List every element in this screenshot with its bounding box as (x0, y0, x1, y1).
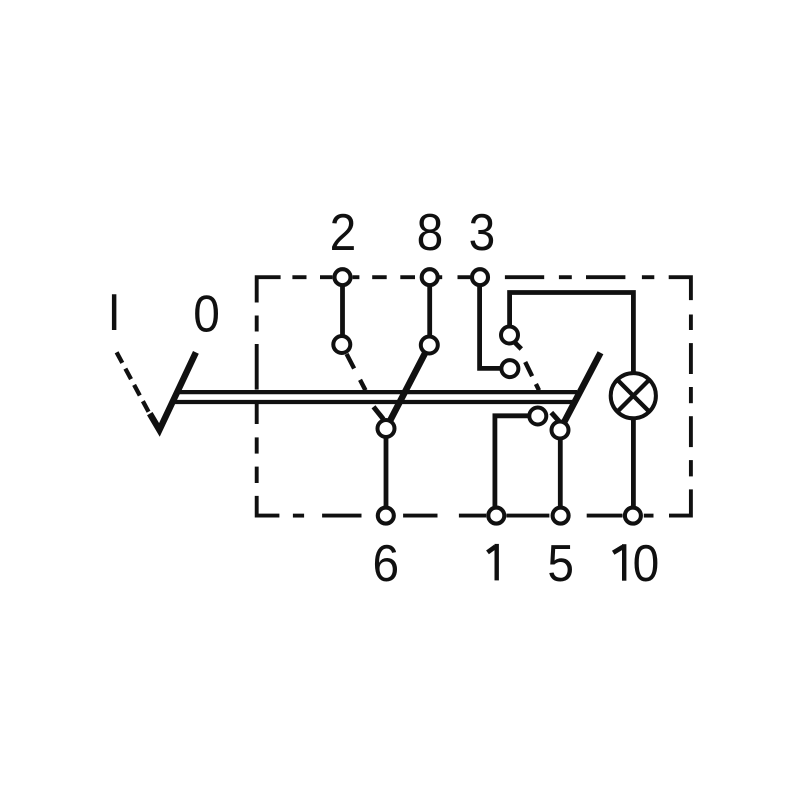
lamp L (611, 373, 656, 418)
svg-text:I: I (108, 283, 121, 341)
wire pivot A to terminal 6 (384, 432, 389, 510)
stub tick at lamp contact (514, 342, 521, 349)
label 3 (469, 203, 496, 261)
wire pivot B to terminal 5 (558, 434, 563, 510)
pivot contact pole A (378, 420, 395, 437)
actuator dashed position line (position I) (117, 352, 149, 412)
label 0 (193, 285, 220, 343)
wire terminal 3 to contact (480, 279, 505, 368)
label 6 (372, 534, 399, 592)
terminal 8 (422, 269, 438, 285)
pole A contact tick (374, 407, 384, 419)
contact circle for terminal 8 (421, 337, 438, 354)
housing outline bottom edge (dash-dot) (257, 496, 654, 516)
label 2 (330, 203, 357, 261)
svg-text:3: 3 (469, 203, 496, 261)
wire lamp to terminal 10 (631, 415, 636, 510)
svg-text:8: 8 (417, 203, 444, 261)
terminal 3 contact (lower) (501, 360, 518, 377)
pivot contact pole B (552, 422, 569, 439)
mechanical linkage double bar (172, 390, 579, 404)
label 8 (417, 203, 444, 261)
terminal 10 (625, 508, 641, 524)
wire terminal 2 riser (340, 279, 345, 345)
label I (108, 283, 121, 341)
svg-text:2: 2 (330, 203, 357, 261)
switch arm pole B (560, 353, 601, 430)
pole B dashed position line (to lamp contact) (525, 362, 539, 390)
terminal 2 (335, 269, 351, 285)
label 10 (613, 544, 624, 581)
svg-text:6: 6 (372, 534, 399, 592)
pole B contact tick (551, 413, 559, 422)
switch arm pole A (386, 345, 429, 429)
actuator arm (position 0) (150, 352, 196, 430)
terminal 1 (488, 508, 504, 524)
terminal 5 (553, 508, 569, 524)
contact circle for terminal 2 (333, 336, 350, 353)
svg-text:0: 0 (193, 285, 220, 343)
label 5 (547, 534, 574, 592)
lamp-feed contact (upper) (501, 327, 518, 344)
terminal 1 contact (529, 408, 546, 425)
svg-text:5: 5 (547, 534, 574, 592)
wire lamp feed from upper contact (510, 293, 634, 376)
terminal 3 (472, 269, 488, 285)
housing outline left edge (dash-dot) (255, 316, 259, 484)
pole A dashed position line (to contact 2) (347, 354, 366, 390)
wire contact to terminal 1 (495, 416, 532, 510)
housing outline right edge (dash-dot) (669, 315, 691, 516)
svg-text:0: 0 (633, 534, 660, 592)
terminal 6 (378, 508, 394, 524)
housing outline top edge (dash-dot) (257, 277, 691, 302)
wire terminal 8 riser (427, 279, 432, 345)
label 1 (488, 544, 497, 581)
